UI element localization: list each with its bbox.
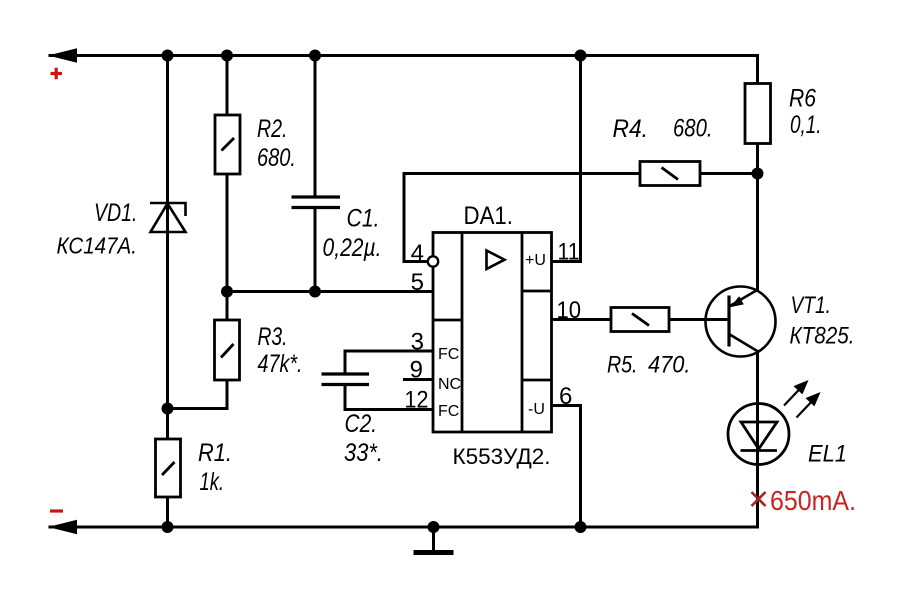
svg-text:6: 6 <box>559 383 572 410</box>
node dot top rail at VD1 <box>162 50 174 62</box>
ground <box>414 550 454 555</box>
wire pin6 to bottom rail <box>552 406 581 528</box>
svg-text:NC: NC <box>438 376 461 393</box>
svg-text:К553УД2.: К553УД2. <box>453 444 551 469</box>
svg-text:R1.: R1. <box>198 439 232 467</box>
wire pin9 stub NC <box>405 378 434 381</box>
node dot top rail at pin11 <box>575 50 587 62</box>
resistor R3 <box>215 320 240 380</box>
pin4 inversion circle <box>428 256 438 266</box>
capacitor C1 <box>292 197 341 208</box>
svg-text:КТ825.: КТ825. <box>790 323 855 350</box>
op-amp triangle symbol <box>487 251 505 270</box>
wire collector to EL1 and bottom rail <box>756 352 759 528</box>
wire C1 branch vertical <box>314 56 317 198</box>
wire VD1/R1 branch vertical <box>166 56 169 528</box>
LED EL1 <box>728 404 789 465</box>
wire pin4 feedback loop <box>404 174 758 262</box>
svg-text:650mA.: 650mA. <box>770 485 856 516</box>
minus sign red <box>50 509 63 512</box>
plus sign red <box>51 68 63 79</box>
svg-text:-U: -U <box>528 401 545 418</box>
svg-text:680.: 680. <box>673 115 713 143</box>
svg-text:47k*.: 47k*. <box>258 350 303 378</box>
svg-text:12: 12 <box>405 387 429 414</box>
node dot top rail at C1 <box>309 50 321 62</box>
red cross mark <box>752 492 766 506</box>
resistor R5 <box>611 308 669 332</box>
transistor VT1 <box>706 287 776 357</box>
resistor R4 <box>640 162 700 186</box>
node dot VD1/R3 <box>162 403 174 415</box>
node dot top rail at R2 <box>221 50 233 62</box>
svg-text:R2.: R2. <box>257 115 288 143</box>
svg-text:VT1.: VT1. <box>791 292 832 319</box>
svg-text:R6: R6 <box>789 85 816 113</box>
svg-text:EL1: EL1 <box>808 441 847 468</box>
svg-text:R5.: R5. <box>607 352 638 379</box>
wire R6 to node <box>756 144 759 174</box>
svg-text:VD1.: VD1. <box>94 199 138 227</box>
svg-text:5: 5 <box>411 269 424 296</box>
svg-text:FC: FC <box>438 403 459 420</box>
svg-text:680.: 680. <box>257 144 296 172</box>
svg-text:9: 9 <box>410 357 423 384</box>
svg-text:+U: +U <box>525 252 546 269</box>
capacitor C2 <box>322 374 370 385</box>
node dot bottom rail at pin6 <box>575 521 587 533</box>
svg-text:33*.: 33*. <box>344 439 383 467</box>
node dot mid at R3 <box>221 286 233 298</box>
terminal arrow minus <box>48 520 77 534</box>
svg-text:C1.: C1. <box>347 205 380 233</box>
wire pin12 line <box>345 385 433 410</box>
emitter arrow VT1 <box>730 296 744 307</box>
ground stub <box>432 527 435 550</box>
wire pin3 line <box>345 351 433 374</box>
wire pin5 input line <box>227 290 433 293</box>
svg-text:11: 11 <box>558 239 580 266</box>
zener diode VD1 <box>150 203 186 232</box>
wire bottom rail <box>50 526 758 529</box>
wire R3 bottom to VD1 line <box>168 292 228 409</box>
wire pin10 to R5 <box>552 318 730 321</box>
resistor R1 <box>156 439 181 497</box>
svg-text:0,22µ.: 0,22µ. <box>323 234 382 262</box>
svg-text:DA1.: DA1. <box>464 202 514 230</box>
light arrow 1 <box>784 382 807 406</box>
wire C1 bottom to node <box>314 208 317 292</box>
svg-text:R3.: R3. <box>258 323 288 351</box>
svg-text:FC: FC <box>438 346 459 363</box>
resistor R6 <box>745 84 771 144</box>
node dot bottom rail at R1 <box>162 521 174 533</box>
wire top supply rail <box>50 56 758 85</box>
node dot R4/R6 <box>752 168 764 180</box>
node dot bottom rail at ground <box>428 521 440 533</box>
svg-text:C2.: C2. <box>345 410 378 438</box>
svg-text:470.: 470. <box>648 352 691 379</box>
resistor R2 <box>215 115 240 174</box>
wire R2/R3 branch vertical <box>226 56 229 292</box>
op-amp DA1 <box>433 233 552 433</box>
svg-text:3: 3 <box>411 329 424 356</box>
svg-text:10: 10 <box>557 297 582 324</box>
wire pin11 to top rail <box>552 56 581 262</box>
svg-text:4: 4 <box>411 240 424 267</box>
svg-text:R4.: R4. <box>613 115 649 143</box>
svg-text:0,1.: 0,1. <box>790 111 822 139</box>
light arrow 2 <box>797 394 819 418</box>
terminal arrow plus <box>48 48 77 62</box>
svg-text:1k.: 1k. <box>200 468 225 496</box>
wire emitter vertical VT1 <box>756 174 759 290</box>
svg-text:КС147А.: КС147А. <box>57 233 138 259</box>
node dot mid at C1 <box>309 286 321 298</box>
